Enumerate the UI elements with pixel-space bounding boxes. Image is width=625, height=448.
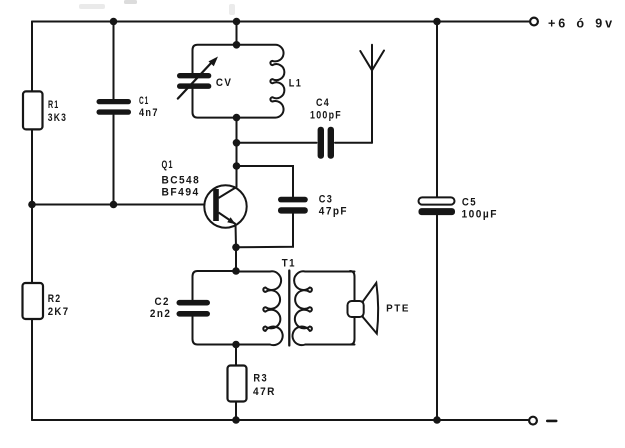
capacitor C2 [177, 300, 211, 317]
capacitor C3 [278, 197, 308, 214]
svg-text:100µF: 100µF [462, 209, 498, 221]
transformer T1 core [288, 271, 290, 346]
svg-text:4n7: 4n7 [139, 107, 159, 119]
capacitor C1 [97, 99, 132, 115]
wire tank left side [193, 45, 237, 118]
svg-text:2n2: 2n2 [150, 308, 171, 320]
wire bottom negative rail [32, 419, 528, 421]
resistor R2 [23, 283, 44, 319]
svg-text:C3: C3 [319, 193, 333, 205]
inductor L1 (tank right side) [237, 45, 285, 118]
junction R3 ground [232, 416, 240, 424]
junction C1 top [110, 18, 118, 26]
svg-text:C1: C1 [139, 95, 149, 107]
svg-text:CV: CV [216, 77, 233, 89]
label minus [546, 420, 558, 423]
wire C5 branch lower [436, 215, 438, 420]
wire primary top/left with C2 [193, 271, 237, 345]
svg-text:100pF: 100pF [310, 110, 342, 122]
wire C3 branch top [237, 166, 294, 197]
svg-text:T1: T1 [282, 258, 296, 270]
wire R3 top [235, 345, 237, 366]
svg-text:2K7: 2K7 [48, 306, 70, 318]
wire left rail [31, 22, 33, 421]
svg-text:PTE: PTE [386, 303, 410, 314]
svg-text:BC548: BC548 [162, 175, 201, 187]
junction tank top [233, 41, 241, 49]
transformer T1 primary winding [236, 271, 283, 345]
wire collector vertical [236, 118, 238, 187]
wire C4 branch left [237, 142, 317, 144]
capacitor C4 [318, 127, 334, 159]
svg-text:C4: C4 [316, 97, 330, 109]
svg-text:47R: 47R [253, 386, 276, 398]
junction C5 top [433, 18, 441, 26]
capacitor C5 electrolytic [419, 197, 455, 204]
CV arrow [178, 62, 213, 99]
wire C4 to antenna [335, 142, 372, 144]
wire secondary loop to speaker [350, 271, 355, 345]
junction R1 bottom [28, 201, 36, 209]
junction emitter [232, 244, 240, 252]
svg-text:L1: L1 [289, 78, 302, 90]
junction C5 ground [433, 416, 441, 424]
wire emitter to transformer [235, 247, 237, 271]
svg-text:BF494: BF494 [162, 187, 200, 199]
junction tank bottom [233, 114, 241, 122]
svg-text:Q1: Q1 [162, 159, 174, 171]
resistor R3 [228, 366, 247, 402]
svg-text:C5: C5 [462, 196, 477, 208]
svg-text:C2: C2 [155, 296, 170, 308]
wire C3 branch bottom [236, 214, 293, 248]
terminal positive supply [530, 18, 538, 26]
junction C1 bottom [110, 201, 118, 209]
junction C4 branch [233, 139, 241, 147]
junction tank top rail [233, 18, 241, 26]
variable capacitor CV [177, 73, 211, 89]
wire base line (R1/C1 bottom to Q1 base) [32, 204, 214, 206]
wire tank top stub [236, 22, 238, 45]
antenna [360, 45, 384, 143]
transistor Q1 [204, 185, 246, 227]
svg-text:+6 ó 9v: +6 ó 9v [548, 15, 615, 30]
junction primary top [232, 267, 240, 275]
transformer T1 secondary winding [293, 271, 355, 345]
wire C1 branch lower [113, 115, 115, 205]
wire C1 branch upper [113, 22, 115, 100]
svg-text:R1: R1 [48, 99, 59, 111]
wire R3 bottom [235, 402, 237, 421]
resistor R1 [23, 91, 43, 129]
speaker PTE [363, 283, 378, 334]
junction C3 branch [233, 162, 241, 170]
wire top supply rail [32, 21, 530, 23]
svg-text:47pF: 47pF [319, 206, 348, 218]
svg-text:R3: R3 [253, 373, 268, 385]
svg-text:3K3: 3K3 [48, 112, 67, 124]
svg-text:R2: R2 [48, 293, 62, 305]
wire C5 branch upper [436, 22, 438, 198]
junction primary bottom [232, 341, 240, 349]
terminal negative supply [529, 417, 537, 425]
